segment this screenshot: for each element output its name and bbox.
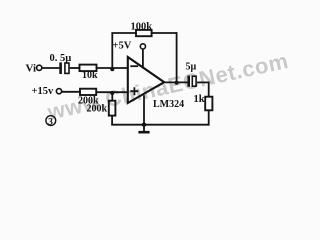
wire 10k to op-amp inverting input (97, 67, 128, 69)
wire 200k to op-amp non-inverting input (96, 91, 128, 93)
ground rail wire (111, 124, 209, 126)
wire +5V to op-amp V+ (142, 49, 144, 67)
watermark (45, 41, 320, 126)
wire 1k bottom to rail (208, 110, 210, 125)
resistor R 200k vertical (109, 101, 116, 116)
svg-text:LM324: LM324 (153, 99, 184, 110)
svg-text:200k: 200k (87, 104, 108, 115)
plus sign non-inverting (130, 87, 138, 95)
wire 200k bottom to rail (111, 116, 113, 125)
wire output to C 5u (164, 81, 187, 83)
resistor R 10k (80, 65, 97, 72)
node junction inverting input (110, 67, 114, 71)
svg-text:0. 5µ: 0. 5µ (50, 53, 72, 64)
wire feedback top left (111, 32, 136, 34)
wire feedback down (176, 32, 178, 82)
op-amp U1 triangle (128, 57, 164, 103)
svg-text:3: 3 (48, 117, 53, 127)
wire Vi to C1 (42, 67, 60, 69)
svg-text:1k: 1k (194, 94, 205, 105)
wire C 5u to corner (197, 81, 209, 83)
minus sign inverting (130, 65, 138, 67)
svg-text:+5V: +5V (113, 41, 132, 52)
resistor R 1k vertical (205, 97, 212, 111)
svg-text:10k: 10k (82, 70, 98, 81)
resistor R 100k feedback (136, 30, 152, 36)
wire node down to R 200k vertical (111, 92, 113, 101)
wire op-amp V- to rail (143, 95, 145, 125)
ground symbol (138, 125, 149, 134)
wire C1 to R 10k (70, 67, 80, 69)
+5V terminal (140, 44, 145, 49)
capacitor C 0.5u plates (59, 62, 62, 74)
wire feedback up (111, 33, 113, 68)
node junction output (175, 81, 179, 85)
figure number 3 circled (46, 116, 56, 128)
capacitor C 5u plates (187, 76, 190, 87)
node junction non-inverting (110, 91, 114, 95)
wire corner down to R 1k (208, 82, 210, 97)
svg-text:100k: 100k (131, 22, 153, 33)
terminal +15v (56, 89, 61, 94)
svg-text:+15v: +15v (32, 86, 54, 97)
wire feedback top right (152, 32, 177, 34)
svg-text:5µ: 5µ (186, 62, 197, 73)
resistor R 200k horizontal (80, 89, 96, 95)
svg-text:Vi: Vi (26, 63, 37, 75)
input terminal Vi (37, 65, 42, 70)
wire +15v to R 200k (62, 91, 80, 93)
node junction ground (142, 123, 146, 127)
